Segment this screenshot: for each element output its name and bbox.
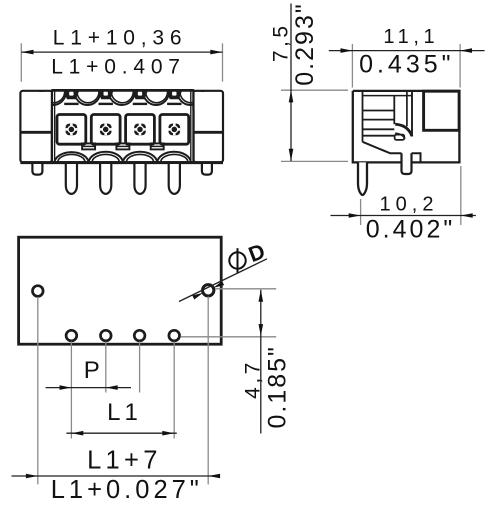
dimension 4,7 / 0.185"	[242, 290, 292, 434]
under-top line	[363, 95, 413, 97]
dimension P (pitch)	[46, 357, 131, 390]
dimension L1+7 / L1+0.027"	[12, 446, 221, 504]
middle peg	[402, 153, 412, 174]
dimension L1	[66, 399, 176, 436]
svg-text:P: P	[84, 357, 100, 384]
svg-text:L1+0.027": L1+0.027"	[51, 476, 203, 500]
svg-text:7,5: 7,5	[270, 22, 293, 62]
plug body outline	[52, 90, 194, 162]
svg-text:0.402": 0.402"	[366, 215, 455, 243]
svg-text:L1+10,36: L1+10,36	[53, 26, 188, 49]
right flange	[194, 91, 224, 163]
front view: connector body	[20, 90, 223, 162]
front view: bottom edge	[20, 161, 223, 164]
hole top-left	[33, 286, 44, 297]
front view: 4 screw terminal squares	[57, 115, 189, 145]
notch marks at terminal centers	[64, 92, 182, 100]
hole D (top-right)	[203, 285, 214, 296]
inner left vertical	[362, 91, 364, 142]
scallop arcs between terminals	[40, 92, 203, 106]
svg-text:L1+7: L1+7	[87, 446, 162, 474]
dimension L1+10,36 / L1+0.407 (front view width)	[21, 26, 222, 81]
side view: connector profile	[353, 91, 460, 195]
svg-text:L1+0.407: L1+0.407	[51, 56, 186, 79]
stack right vertical	[393, 96, 395, 125]
svg-text:0.293": 0.293"	[291, 2, 319, 85]
svg-text:11,1: 11,1	[383, 26, 439, 48]
svg-text:10,2: 10,2	[380, 193, 439, 215]
front view: solder pins	[66, 164, 180, 194]
footprint view: board outline	[19, 237, 222, 344]
left flange	[20, 91, 52, 163]
svg-text:L1: L1	[107, 399, 142, 426]
label diameter D	[226, 239, 269, 275]
dimension 11,1 / 0.435" (side view top width)	[329, 26, 485, 87]
dimension 7,5 / 0.293" (side view height)	[270, 2, 349, 161]
outer outline with pin + peg	[353, 91, 460, 162]
front view: lower wave	[54, 152, 191, 162]
dimension 10,2 / 0.402" (side view bottom width)	[331, 166, 476, 243]
bottom step profile	[363, 142, 421, 163]
screw symbols	[66, 124, 181, 136]
clamp stack lines	[363, 110, 395, 112]
svg-text:0.435": 0.435"	[359, 51, 454, 79]
top-right inner rectangle	[424, 91, 460, 130]
front view: top scallop strip	[31, 90, 217, 110]
svg-text:0.185": 0.185"	[264, 345, 292, 428]
bottom row holes	[66, 330, 77, 341]
bottom-left solder pin	[358, 162, 367, 195]
front view: flange pegs	[32, 164, 212, 175]
clamp tabs between squares	[82, 143, 164, 149]
svg-text:4,7: 4,7	[242, 359, 265, 399]
cover left/right overflow of end scallops	[31, 92, 51, 110]
leader line for hole D	[179, 259, 267, 302]
wire-guide arc	[395, 124, 412, 136]
extension lines (grey) from holes	[38, 289, 276, 485]
slot	[406, 91, 408, 126]
